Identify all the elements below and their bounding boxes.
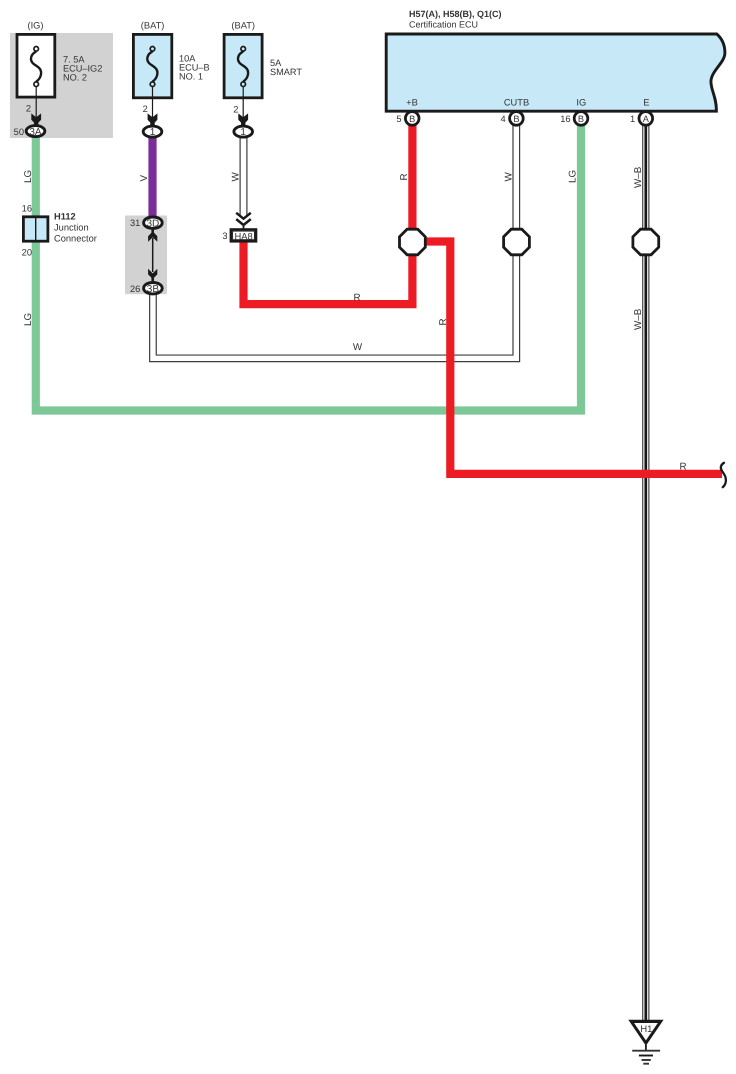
ECU pin 4 (B) label xyxy=(501,114,520,124)
svg-text:W–B: W–B xyxy=(633,166,644,188)
svg-text:16: 16 xyxy=(560,114,570,124)
svg-text:W: W xyxy=(504,172,515,182)
svg-text:R: R xyxy=(438,318,449,325)
fuse 7.5A ECU-IG2 NO.2 xyxy=(17,34,55,97)
svg-text:V: V xyxy=(139,175,150,182)
pin 2 lead and arrow xyxy=(242,87,244,122)
ECU pin connector circles xyxy=(405,112,652,126)
octagon junction on W-B wire xyxy=(633,229,659,255)
ECU pin 5 (B) label xyxy=(396,114,415,124)
svg-text:B: B xyxy=(409,114,415,124)
svg-text:LG: LG xyxy=(23,170,34,183)
svg-text:Connector: Connector xyxy=(54,234,97,244)
svg-text:3A: 3A xyxy=(29,127,42,138)
svg-text:50: 50 xyxy=(14,127,24,137)
wire LG from 3A down, right, up to ECU pin IG xyxy=(36,122,581,411)
wire W from CUTB down and left to 3B xyxy=(153,121,516,358)
svg-text:E: E xyxy=(643,98,649,108)
fuse 10A ECU-B NO.1 box xyxy=(133,21,209,139)
fuse 5A SMART box xyxy=(224,21,302,139)
connector HA8 xyxy=(222,230,256,242)
wire V purple from fuse ECU-B to 3D xyxy=(148,132,156,221)
wire R from ECU pin +B through octagon down-left to HA8 xyxy=(244,124,413,304)
wire R from octagon right, down, and right off-page xyxy=(424,242,722,474)
connector oval 1 xyxy=(234,126,253,137)
svg-text:3D: 3D xyxy=(147,218,160,229)
svg-text:H57(A), H58(B), Q1(C): H57(A), H58(B), Q1(C) xyxy=(409,9,502,19)
svg-text:W: W xyxy=(231,172,242,182)
gray block behind 3D/3B connectors xyxy=(125,216,167,295)
pin 2 lead and arrow xyxy=(152,87,154,122)
svg-text:16: 16 xyxy=(22,203,32,213)
svg-text:1: 1 xyxy=(240,127,246,138)
svg-text:H112: H112 xyxy=(54,212,76,222)
svg-text:2: 2 xyxy=(143,104,148,114)
svg-text:20: 20 xyxy=(22,247,32,257)
connector 3B xyxy=(130,283,162,295)
svg-text:R: R xyxy=(353,293,360,304)
svg-text:R: R xyxy=(679,462,686,473)
svg-text:(IG): (IG) xyxy=(27,21,43,31)
octagon junction on +B red wire xyxy=(400,229,426,255)
pin 2 lead and arrow xyxy=(35,87,37,122)
svg-text:3: 3 xyxy=(222,231,227,241)
svg-text:B: B xyxy=(513,114,519,124)
svg-text:1: 1 xyxy=(150,127,156,138)
svg-text:2: 2 xyxy=(26,104,31,114)
wire color labels xyxy=(23,166,687,472)
svg-text:+B: +B xyxy=(406,98,418,108)
double-ended arrow between 3D and 3B xyxy=(148,230,157,281)
svg-text:LG: LG xyxy=(23,313,34,326)
svg-text:R: R xyxy=(399,173,410,180)
Certification ECU box xyxy=(386,9,725,111)
svg-text:1: 1 xyxy=(630,114,635,124)
svg-text:LG: LG xyxy=(568,170,579,183)
svg-text:31: 31 xyxy=(130,218,140,228)
svg-text:A: A xyxy=(643,114,650,124)
fuse 7.5A ECU-IG2 NO.2 box xyxy=(14,21,103,138)
wire break squiggle at right end of R xyxy=(721,463,726,487)
wire W from 5A SMART fuse to HA8 chevron xyxy=(240,132,248,215)
gray block behind fuse ECU-IG2 xyxy=(10,33,113,138)
svg-text:W: W xyxy=(353,342,363,353)
double chevron into HA8 xyxy=(236,213,251,229)
connector 3D xyxy=(130,217,162,229)
svg-text:CUTB: CUTB xyxy=(504,98,529,108)
svg-text:H1: H1 xyxy=(640,1023,652,1034)
svg-text:HA8: HA8 xyxy=(234,230,252,241)
svg-text:Junction: Junction xyxy=(54,223,89,233)
ground H1 xyxy=(628,1020,663,1064)
svg-text:W–B: W–B xyxy=(633,308,644,330)
svg-text:4: 4 xyxy=(501,114,506,124)
ECU pin 16 (B) label xyxy=(560,114,584,124)
octagon junction on CUTB white wire xyxy=(504,229,530,255)
fuse 10A ECU-B NO.1 xyxy=(133,34,171,97)
svg-text:NO. 2: NO. 2 xyxy=(63,72,87,82)
svg-text:B: B xyxy=(578,114,584,124)
svg-text:IG: IG xyxy=(576,98,586,108)
svg-text:5: 5 xyxy=(396,114,401,124)
svg-text:(BAT): (BAT) xyxy=(141,21,165,31)
wire W-B from ECU pin E to ground H1 xyxy=(642,121,649,1021)
fuse 5A SMART xyxy=(224,34,262,97)
svg-text:NO. 1: NO. 1 xyxy=(179,72,203,82)
svg-text:26: 26 xyxy=(130,284,140,294)
svg-text:(BAT): (BAT) xyxy=(231,21,255,31)
svg-text:3B: 3B xyxy=(147,284,160,295)
svg-text:2: 2 xyxy=(233,104,238,114)
svg-text:Certification ECU: Certification ECU xyxy=(409,19,478,29)
connector oval 1 xyxy=(143,126,162,137)
svg-text:SMART: SMART xyxy=(270,67,302,77)
junction connector H112 xyxy=(22,203,97,257)
ECU pin 1 (A) label xyxy=(630,114,650,124)
